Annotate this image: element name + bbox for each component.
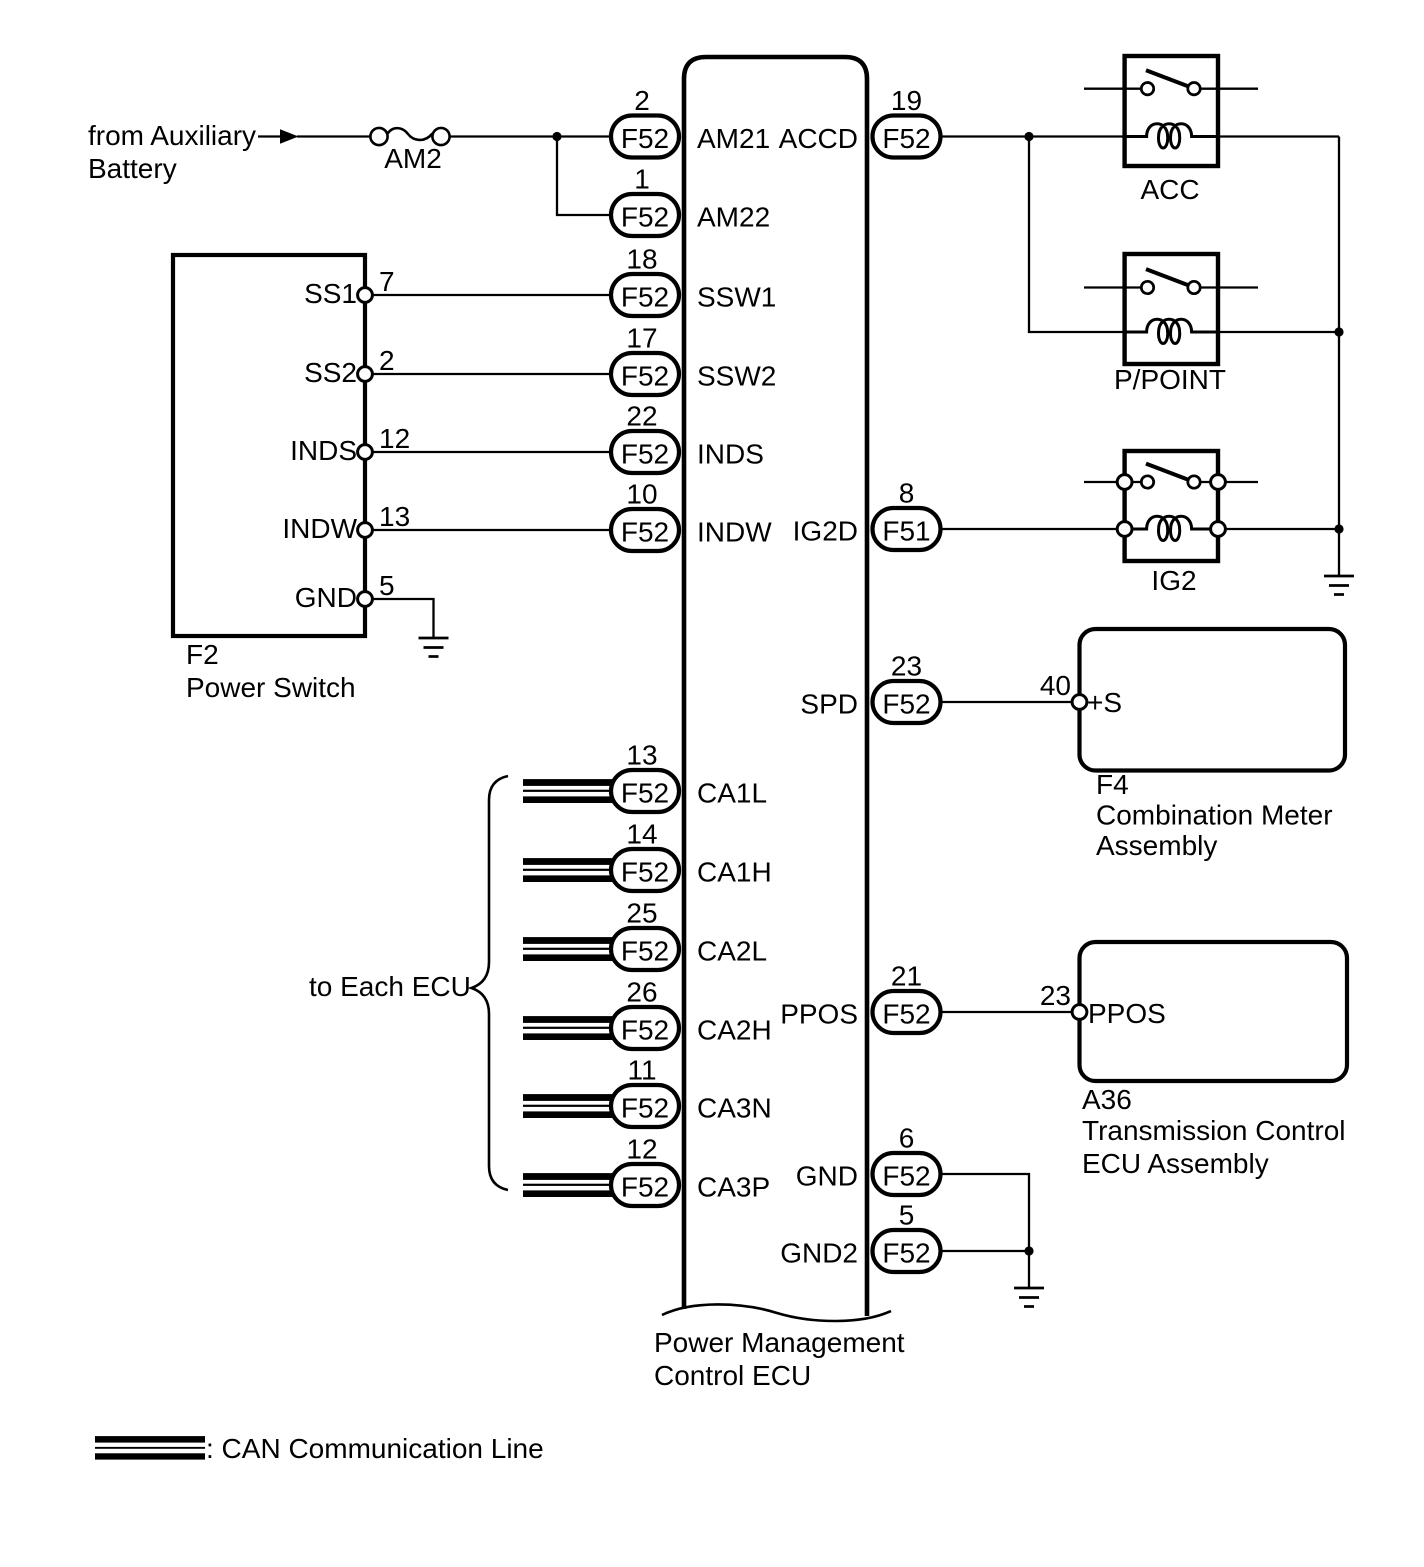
svg-text:+S: +S: [1087, 687, 1122, 718]
power switch pin labels: [282, 278, 357, 613]
wire PPOS to transmission ECU: [940, 1011, 1071, 1013]
relay IG2 coil: [1125, 516, 1218, 540]
relay ACC box: [1125, 56, 1218, 166]
relay P/POINT coil: [1125, 319, 1218, 343]
svg-text:2: 2: [634, 85, 650, 116]
node junction AM2 feed split: [552, 132, 561, 141]
svg-text:25: 25: [626, 898, 657, 929]
ground relay bus: [1324, 576, 1354, 595]
pin circle relay IG2: [1211, 522, 1226, 537]
svg-text:F52: F52: [621, 202, 669, 233]
ECU internal pin names right: [779, 123, 858, 1269]
svg-text:Power Management: Power Management: [654, 1327, 905, 1358]
svg-text:PPOS: PPOS: [1088, 998, 1166, 1029]
svg-text:Control ECU: Control ECU: [654, 1360, 811, 1391]
connector oval F52 pin 11 (CA3N): [611, 1055, 679, 1128]
svg-text:F52: F52: [621, 1172, 669, 1203]
wire branch down to P/POINT coil: [1029, 137, 1125, 333]
svg-text:GND: GND: [295, 582, 357, 613]
wire IG2D to IG2 coil: [940, 528, 1117, 530]
connector oval F52 pin 10 (INDW): [611, 479, 679, 552]
svg-text:F52: F52: [621, 517, 669, 548]
pin circle power switch GND: [358, 592, 373, 607]
wire right vertical bus to ground: [1338, 137, 1340, 577]
svg-text:23: 23: [1040, 980, 1071, 1011]
wire SSW1: [373, 294, 612, 296]
svg-text:26: 26: [626, 977, 657, 1008]
svg-text:40: 40: [1040, 670, 1071, 701]
pin circle power switch SS2: [358, 367, 373, 382]
wire SSW2: [373, 373, 612, 375]
transmission control ECU A36 box: [1080, 942, 1348, 1081]
svg-text:SS1: SS1: [304, 278, 357, 309]
svg-text:8: 8: [899, 478, 915, 509]
wire SPD to combination meter +S: [940, 701, 1071, 703]
legend CAN communication line symbol: [95, 1436, 205, 1460]
svg-text:5: 5: [379, 570, 395, 601]
pin circle relay IG2: [1211, 475, 1226, 490]
pin circle relay IG2: [1117, 522, 1132, 537]
pin circle transmission PPOS pin 23: [1072, 1005, 1087, 1020]
node from Auxiliary Battery: [88, 120, 256, 184]
ECU U1 Power Management Control ECU box: [684, 57, 867, 1316]
connector oval F52 pin 2 (AM21): [611, 85, 679, 158]
svg-text:F52: F52: [621, 361, 669, 392]
arrowhead battery feed: [280, 129, 299, 144]
connector oval F52 pin 22 (INDS): [611, 401, 679, 474]
svg-text:CA3P: CA3P: [697, 1172, 770, 1203]
svg-text:12: 12: [379, 423, 410, 454]
wire from-battery feed to fuse AM2: [258, 135, 611, 137]
svg-text:CA1H: CA1H: [697, 857, 772, 888]
power switch pin numbers: [379, 266, 410, 601]
svg-text:INDW: INDW: [282, 513, 357, 544]
connector oval F52 pin 19 (ACCD): [873, 85, 941, 158]
pin circle power switch SS1: [358, 288, 373, 303]
svg-text:Combination Meter: Combination Meter: [1096, 800, 1333, 831]
svg-text:Power Switch: Power Switch: [186, 672, 356, 703]
wire branch to AM22: [557, 137, 611, 216]
wire ACCD to ACC relay coil: [940, 135, 1125, 137]
connector oval F52 pin 25 (CA2L): [611, 898, 679, 971]
connector oval F52 pin 26 (CA2H): [611, 977, 679, 1050]
svg-text:Transmission Control: Transmission Control: [1082, 1115, 1345, 1146]
svg-text:PPOS: PPOS: [780, 999, 858, 1030]
svg-text:F52: F52: [621, 439, 669, 470]
svg-text:F52: F52: [882, 999, 930, 1030]
svg-text:ECU Assembly: ECU Assembly: [1082, 1148, 1269, 1179]
wire CAN bus to CA1L: [523, 779, 612, 803]
pin 23 PPOS labels: [1040, 980, 1166, 1029]
svg-text:F52: F52: [621, 1093, 669, 1124]
label A36 Transmission Control ECU Assembly: [1082, 1084, 1345, 1179]
svg-text:Assembly: Assembly: [1096, 830, 1217, 861]
svg-text:SPD: SPD: [800, 689, 858, 720]
connector oval F52 pin 23 (SPD): [873, 651, 941, 724]
wire CAN bus to CA3P: [523, 1173, 612, 1197]
label F4 Combination Meter Assembly: [1096, 769, 1333, 861]
ECU internal pin names left: [697, 123, 776, 1203]
svg-text:12: 12: [626, 1134, 657, 1165]
svg-text:F52: F52: [621, 123, 669, 154]
pin circle power switch INDW: [358, 523, 373, 538]
svg-text:AM2: AM2: [384, 143, 442, 174]
svg-text:F52: F52: [621, 282, 669, 313]
svg-text:ACC: ACC: [1140, 174, 1199, 205]
connector oval F52 pin 18 (SSW1): [611, 244, 679, 317]
svg-text:from Auxiliary: from Auxiliary: [88, 120, 256, 151]
svg-text:INDS: INDS: [290, 435, 357, 466]
pin circle meter +S pin 40: [1072, 695, 1087, 710]
brace to Each ECU: [472, 776, 509, 1190]
svg-text:19: 19: [891, 85, 922, 116]
relay IG2 switch contact: [1084, 464, 1258, 489]
relay ACC coil: [1125, 124, 1218, 148]
wire GND2 to ground junction: [940, 1250, 1029, 1252]
svg-text:11: 11: [627, 1055, 656, 1086]
relay ACC switch contact: [1084, 70, 1258, 95]
svg-text:1: 1: [634, 164, 650, 195]
ground power switch: [419, 638, 449, 657]
svg-text:22: 22: [626, 401, 657, 432]
wire IG2 coil right to bus: [1225, 528, 1339, 530]
combination meter assembly F4 box: [1080, 629, 1346, 771]
pin circle relay IG2: [1117, 475, 1132, 490]
svg-text:10: 10: [626, 479, 657, 510]
svg-text:23: 23: [891, 651, 922, 682]
relay IG2 box: [1125, 451, 1218, 561]
svg-text:Battery: Battery: [88, 153, 177, 184]
svg-text:: CAN Communication Line: : CAN Communication Line: [206, 1433, 544, 1464]
svg-text:21: 21: [891, 961, 922, 992]
label Power Management Control ECU: [654, 1327, 905, 1391]
fuse AM2: [370, 128, 449, 145]
node junction ACCD branch: [1024, 132, 1033, 141]
power switch F2 box: [173, 255, 365, 636]
svg-text:GND: GND: [796, 1161, 858, 1192]
svg-text:F52: F52: [882, 1238, 930, 1269]
svg-text:INDS: INDS: [697, 439, 764, 470]
wire P/POINT coil right to bus: [1218, 331, 1339, 333]
svg-text:to Each ECU: to Each ECU: [309, 971, 471, 1002]
svg-text:AM21: AM21: [697, 123, 770, 154]
svg-text:CA2L: CA2L: [697, 936, 767, 967]
wire GND to ground junction: [940, 1174, 1029, 1251]
svg-text:P/POINT: P/POINT: [1114, 364, 1226, 395]
svg-text:F52: F52: [621, 1015, 669, 1046]
node junction P/POINT coil right: [1334, 327, 1343, 336]
connector oval F52 pin 6 (GND): [873, 1123, 941, 1196]
wire ACC coil right to right bus: [1218, 135, 1339, 137]
connector oval F52 pin 13 (CA1L): [611, 740, 679, 813]
svg-text:A36: A36: [1082, 1084, 1132, 1115]
svg-text:SS2: SS2: [304, 357, 357, 388]
svg-text:14: 14: [626, 819, 657, 850]
wire CAN bus to CA1H: [523, 858, 612, 882]
wire INDW: [373, 529, 612, 531]
svg-text:SSW1: SSW1: [697, 282, 776, 313]
svg-text:F51: F51: [882, 516, 930, 547]
relay P/POINT switch contact: [1084, 269, 1258, 294]
wire down to ECU ground: [1028, 1251, 1030, 1288]
svg-text:F52: F52: [621, 778, 669, 809]
connector oval F52 pin 17 (SSW2): [611, 323, 679, 396]
ground ECU GND2: [1014, 1288, 1044, 1307]
svg-text:17: 17: [626, 323, 657, 354]
wire power switch GND to ground: [373, 599, 434, 638]
svg-text:IG2D: IG2D: [793, 516, 858, 547]
svg-text:2: 2: [379, 345, 395, 376]
connector oval F52 pin 1 (AM22): [611, 164, 679, 237]
relay P/POINT box: [1125, 254, 1218, 364]
node junction IG2 coil right: [1334, 524, 1343, 533]
wire CAN bus to CA2H: [523, 1016, 612, 1040]
svg-text:6: 6: [899, 1123, 915, 1154]
svg-text:GND2: GND2: [780, 1238, 858, 1269]
svg-text:CA3N: CA3N: [697, 1093, 772, 1124]
svg-text:SSW2: SSW2: [697, 361, 776, 392]
pin circle power switch INDS: [358, 445, 373, 460]
svg-text:F52: F52: [621, 936, 669, 967]
svg-text:CA1L: CA1L: [697, 778, 767, 809]
svg-text:AM22: AM22: [697, 202, 770, 233]
wire ECU bottom break wavy line: [662, 1304, 891, 1321]
svg-text:13: 13: [379, 501, 410, 532]
svg-text:F52: F52: [621, 857, 669, 888]
svg-text:F52: F52: [882, 123, 930, 154]
svg-text:ACCD: ACCD: [779, 123, 858, 154]
connector oval F52 pin 21 (PPOS): [873, 961, 941, 1034]
svg-text:F2: F2: [186, 639, 219, 670]
svg-text:F52: F52: [882, 689, 930, 720]
svg-text:7: 7: [379, 266, 395, 297]
svg-text:F4: F4: [1096, 769, 1129, 800]
label F2 Power Switch: [186, 639, 356, 703]
svg-text:F52: F52: [882, 1161, 930, 1192]
wire CAN bus to CA2L: [523, 937, 612, 961]
connector oval F51 pin 8 (IG2D): [873, 478, 941, 551]
pin 40 +S labels: [1040, 670, 1122, 718]
svg-text:INDW: INDW: [697, 517, 772, 548]
connector oval F52 pin 12 (CA3P): [611, 1134, 679, 1207]
wire INDS: [373, 451, 612, 453]
wire CAN bus to CA3N: [523, 1094, 612, 1118]
node junction GND/GND2: [1024, 1246, 1033, 1255]
svg-text:13: 13: [626, 740, 657, 771]
svg-text:IG2: IG2: [1151, 565, 1196, 596]
connector oval F52 pin 14 (CA1H): [611, 819, 679, 892]
connector oval F52 pin 5 (GND2): [873, 1200, 941, 1273]
svg-text:5: 5: [899, 1200, 915, 1231]
svg-text:CA2H: CA2H: [697, 1015, 772, 1046]
svg-text:18: 18: [626, 244, 657, 275]
